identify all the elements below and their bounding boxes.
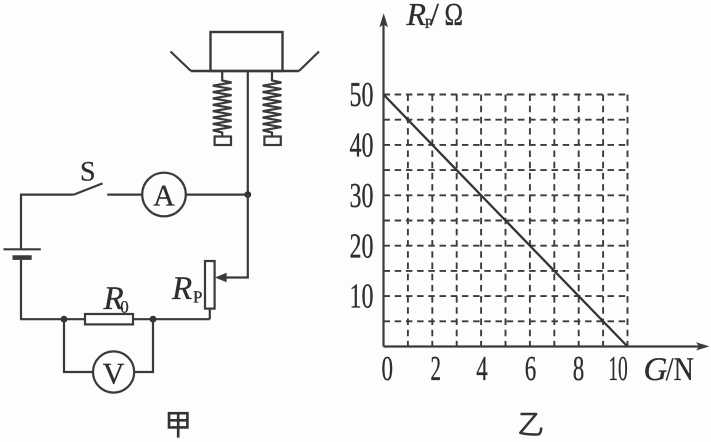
svg-text:G: G	[644, 352, 668, 388]
rheostat bottom lead	[209, 309, 211, 320]
switch S blade	[74, 183, 103, 194]
wiper arrowhead	[215, 273, 227, 283]
y-axis	[382, 22, 384, 347]
y-axis arrowhead	[379, 13, 388, 27]
svg-text:S: S	[80, 157, 96, 188]
svg-text:R: R	[171, 271, 192, 307]
wire R0 to rheostat	[133, 318, 210, 320]
svg-text:/N: /N	[666, 352, 694, 388]
svg-text:6: 6	[525, 349, 537, 388]
svg-text:2: 2	[431, 349, 442, 388]
ammeter A	[142, 173, 186, 217]
spring left	[213, 71, 232, 137]
grid horizontal dashed lines	[384, 320, 628, 322]
svg-text:0: 0	[120, 298, 129, 317]
battery long plate	[3, 248, 40, 250]
junction node (rod / ammeter wire)	[244, 191, 251, 198]
svg-text:A: A	[153, 180, 175, 213]
svg-text:P: P	[193, 287, 202, 306]
svg-text:/: /	[430, 0, 439, 32]
svg-text:30: 30	[350, 176, 374, 215]
wire ammeter to node	[186, 194, 248, 196]
RP vs G line	[384, 95, 628, 347]
svg-text:10: 10	[608, 349, 628, 388]
spring left foot block	[215, 137, 231, 146]
svg-text:4: 4	[476, 349, 488, 388]
scale pan surface	[191, 70, 299, 72]
wire node down to wiper corner	[226, 195, 248, 278]
svg-text:0: 0	[381, 349, 393, 388]
grid vertical dashed lines	[407, 95, 409, 347]
scale pan right flange	[299, 52, 319, 72]
wire battery negative to bottom rail	[21, 258, 85, 320]
scale pan left flange	[171, 52, 192, 72]
svg-text:V: V	[103, 358, 125, 391]
voltmeter right branch wire	[134, 319, 153, 372]
caption 甲 (jia)	[169, 413, 187, 437]
junction node right of R0	[150, 316, 157, 323]
wire switch to ammeter	[107, 194, 142, 196]
voltmeter V	[93, 351, 134, 392]
svg-text:R: R	[406, 0, 427, 32]
x-axis	[384, 345, 700, 347]
svg-text:20: 20	[350, 226, 374, 265]
svg-text:10: 10	[350, 277, 374, 316]
voltmeter left branch wire	[64, 319, 93, 372]
svg-text:40: 40	[350, 126, 374, 165]
svg-text:8: 8	[573, 349, 585, 388]
svg-text:50: 50	[350, 75, 374, 114]
x-axis arrowhead	[696, 342, 709, 350]
svg-text:Ω: Ω	[445, 0, 464, 32]
rheostat RP body	[205, 261, 215, 309]
wire battery positive to switch	[21, 195, 74, 250]
junction node left of R0	[61, 316, 68, 323]
platform load box	[211, 32, 283, 71]
caption 乙 (yi)	[520, 414, 541, 434]
spring right foot block	[264, 137, 280, 146]
spring right	[263, 71, 282, 137]
resistor R0 body	[85, 314, 133, 324]
battery short thick plate	[13, 255, 32, 260]
rod wire from pan down to node	[247, 71, 249, 195]
